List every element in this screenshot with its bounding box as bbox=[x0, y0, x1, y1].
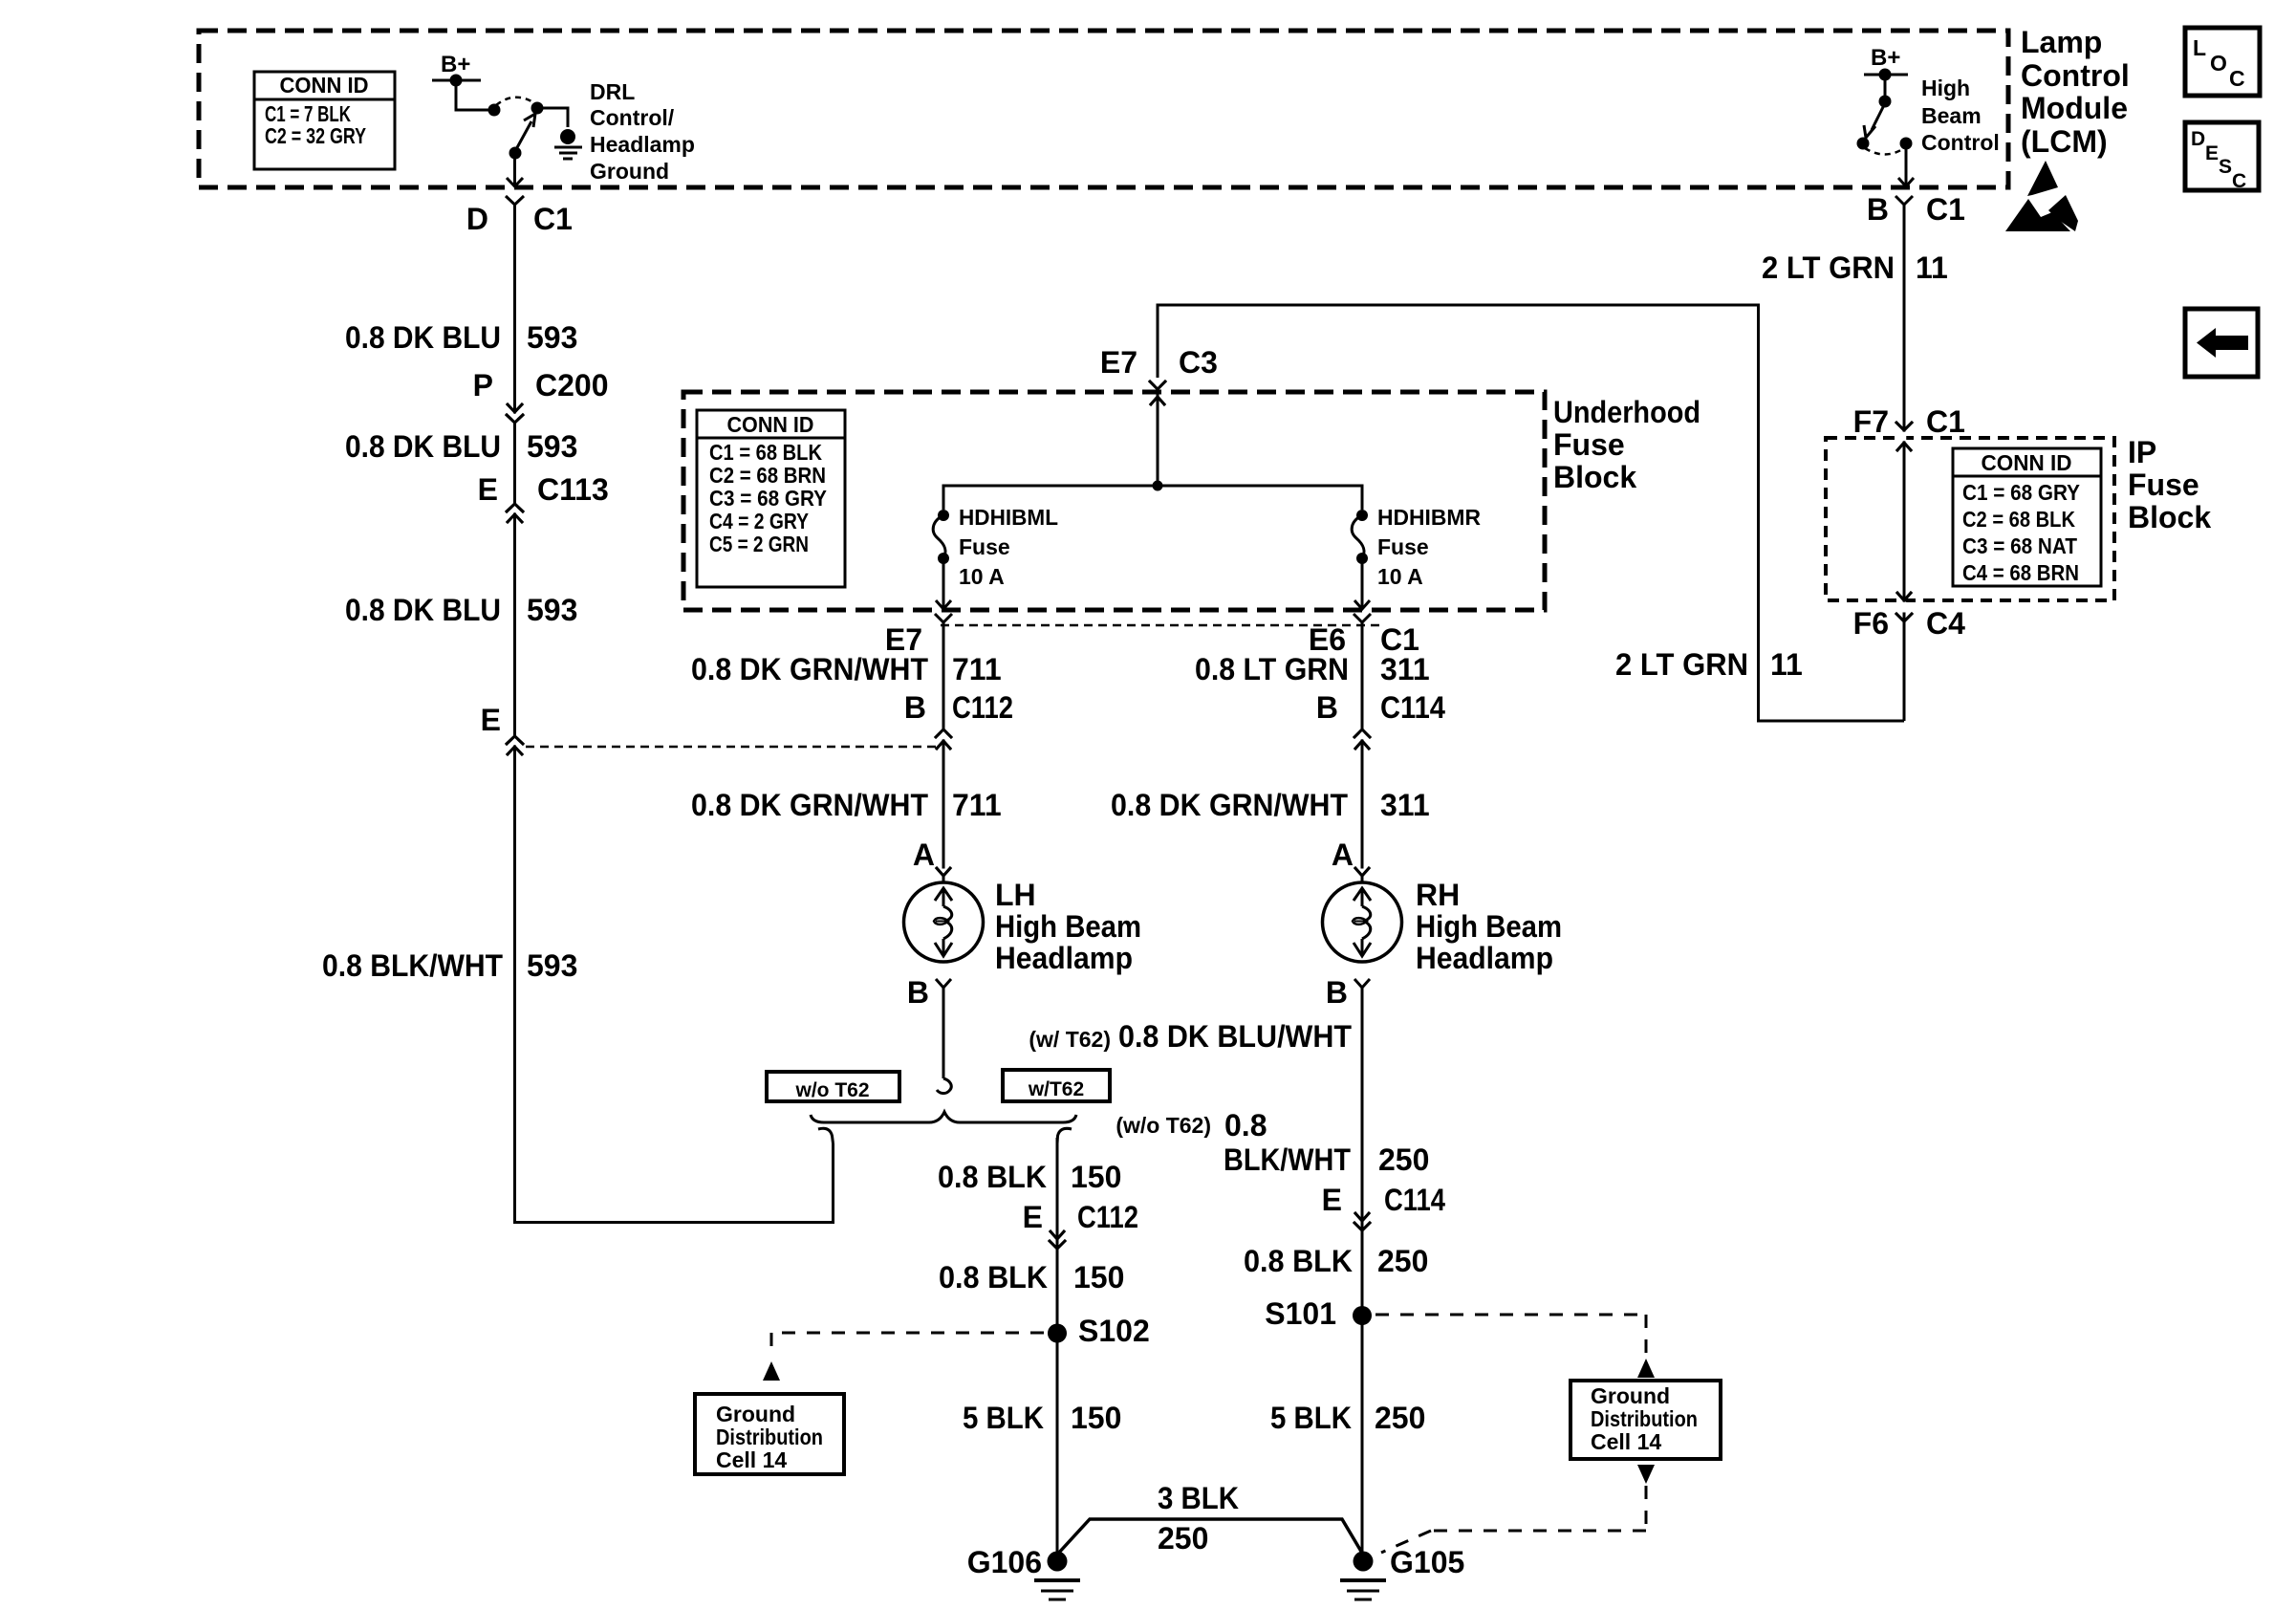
svg-text:C: C bbox=[2229, 66, 2245, 91]
wire: circuit 150 from w/T62 splice down to G106 bbox=[1056, 1138, 1059, 1555]
svg-text:C114: C114 bbox=[1384, 1183, 1445, 1217]
svg-text:G106: G106 bbox=[967, 1545, 1042, 1579]
module box: Underhood Fuse Block dashed outline bbox=[683, 392, 1545, 610]
svg-text:DRL: DRL bbox=[590, 79, 635, 104]
svg-text:B: B bbox=[1867, 192, 1889, 227]
svg-text:L: L bbox=[2193, 35, 2206, 60]
connector chevron overdraw (keeps symbols crisp over wire gaps) bbox=[506, 381, 1913, 1249]
svg-text:High Beam: High Beam bbox=[995, 909, 1141, 944]
wire: circuit 11 from LCM pin B down through IP fuse block bbox=[1903, 205, 1906, 721]
svg-text:B: B bbox=[1316, 690, 1338, 725]
svg-text:C112: C112 bbox=[952, 690, 1013, 725]
svg-text:E: E bbox=[1023, 1200, 1043, 1234]
svg-text:CONN ID: CONN ID bbox=[280, 73, 369, 98]
svg-text:Headlamp: Headlamp bbox=[590, 132, 695, 157]
wire: HDHIBML fuse output with arrowhead at box edge bbox=[936, 558, 951, 609]
svg-text:0.8 DK GRN/WHT: 0.8 DK GRN/WHT bbox=[691, 788, 928, 822]
label: RH High Beam Headlamp bbox=[1416, 878, 1562, 975]
svg-text:10 A: 10 A bbox=[1377, 564, 1423, 589]
svg-text:CONN ID: CONN ID bbox=[727, 412, 814, 437]
label: 2 LT GRN 11 (upper) bbox=[1762, 250, 1948, 285]
label: LH High Beam Headlamp bbox=[995, 878, 1141, 975]
svg-text:Control/: Control/ bbox=[590, 105, 675, 130]
label: (w/o T62) 0.8 BLK/WHT 250 bbox=[1116, 1108, 1429, 1177]
label: (w/ T62) 0.8 DK BLU/WHT bbox=[1029, 1019, 1352, 1054]
svg-text:E: E bbox=[1322, 1183, 1342, 1217]
svg-text:0.8 DK GRN/WHT: 0.8 DK GRN/WHT bbox=[1111, 788, 1348, 822]
svg-text:593: 593 bbox=[527, 948, 577, 983]
svg-text:Ground: Ground bbox=[716, 1402, 795, 1426]
svg-text:11: 11 bbox=[1916, 250, 1948, 285]
legend box: LOC bbox=[2185, 28, 2260, 96]
wire: w/o T62 branch curl bbox=[818, 1128, 834, 1143]
svg-text:A: A bbox=[1332, 838, 1354, 872]
switch throw arc (dashed, right) bbox=[1865, 148, 1904, 155]
svg-text:Lamp: Lamp bbox=[2021, 25, 2102, 59]
lamp: LH high beam headlamp bulb bbox=[904, 882, 984, 962]
wire: LH headlamp ground lead down to T62 option splice bbox=[937, 988, 951, 1094]
ESD sensitivity symbol bbox=[2005, 161, 2078, 231]
svg-text:O: O bbox=[2210, 51, 2227, 76]
label: 0.8 DK GRN/WHT 711 (upper) bbox=[691, 652, 1002, 686]
svg-text:Cell 14: Cell 14 bbox=[716, 1447, 787, 1472]
switch throw arc (dashed) bbox=[496, 98, 536, 105]
wire: circuit 593 main run (LCM pin D down, over and up to w/o T62 splice) bbox=[515, 205, 834, 1223]
label: 5 BLK 250 bbox=[1270, 1401, 1425, 1435]
label: High Beam Control bbox=[1921, 76, 2000, 155]
connector F6 / C4 below IP fuse block (chevron) bbox=[1853, 606, 1965, 641]
svg-text:Control: Control bbox=[2021, 58, 2130, 93]
connector C113 pin E (pass-through, chevron + arrow up) bbox=[478, 472, 609, 523]
svg-text:711: 711 bbox=[952, 652, 1002, 686]
svg-text:0.8 DK BLU: 0.8 DK BLU bbox=[345, 429, 501, 464]
svg-text:2 LT GRN: 2 LT GRN bbox=[1615, 647, 1748, 682]
connector pin A of LH headlamp (chevron) bbox=[913, 838, 951, 876]
svg-text:Fuse: Fuse bbox=[959, 534, 1010, 559]
svg-text:Headlamp: Headlamp bbox=[995, 941, 1133, 975]
power node B+ (right, high beam control) bbox=[1864, 45, 1908, 81]
svg-text:11: 11 bbox=[1770, 647, 1803, 682]
svg-text:S101: S101 bbox=[1265, 1296, 1336, 1331]
label: DRL Control/ Headlamp Ground bbox=[590, 79, 695, 184]
svg-text:150: 150 bbox=[1071, 1160, 1121, 1194]
svg-text:Fuse: Fuse bbox=[1377, 534, 1429, 559]
svg-text:F7: F7 bbox=[1853, 404, 1889, 439]
svg-text:0.8 LT GRN: 0.8 LT GRN bbox=[1195, 652, 1349, 686]
svg-text:S102: S102 bbox=[1078, 1314, 1150, 1348]
power node B+ (left, DRL control) bbox=[432, 52, 481, 87]
dashed connector tie line E7 to E6 row bbox=[941, 624, 1384, 627]
svg-text:High Beam: High Beam bbox=[1416, 909, 1562, 944]
svg-text:Ground: Ground bbox=[590, 159, 669, 184]
label: 0.8 DK GRN/WHT 711 (lower) bbox=[691, 788, 1002, 822]
splice node S101 bbox=[1265, 1296, 1372, 1331]
label: 0.8 BLK/WHT 593 bbox=[322, 948, 577, 983]
label: Underhood Fuse Block bbox=[1553, 395, 1700, 494]
svg-text:311: 311 bbox=[1380, 652, 1430, 686]
connector table: IP CONN ID bbox=[1953, 448, 2101, 586]
svg-text:D: D bbox=[2191, 128, 2205, 150]
svg-text:Underhood: Underhood bbox=[1553, 395, 1700, 429]
switch arm with arrowhead (DRL) bbox=[509, 114, 536, 160]
svg-text:593: 593 bbox=[527, 320, 577, 355]
svg-text:B: B bbox=[907, 975, 929, 1010]
svg-text:C1 = 68 BLK: C1 = 68 BLK bbox=[709, 440, 822, 465]
svg-text:5 BLK: 5 BLK bbox=[963, 1401, 1044, 1435]
svg-text:Fuse: Fuse bbox=[1553, 427, 1625, 462]
svg-text:0.8 DK BLU: 0.8 DK BLU bbox=[345, 320, 501, 355]
legend box: DESC bbox=[2185, 122, 2259, 192]
svg-text:w/o T62: w/o T62 bbox=[794, 1079, 869, 1101]
svg-text:S: S bbox=[2219, 156, 2232, 178]
label: 0.8 BLK 150 (above C112 pin E) bbox=[938, 1160, 1121, 1194]
svg-text:593: 593 bbox=[527, 429, 577, 464]
wire: circuit 250 from RH headlamp down to G105 bbox=[1361, 988, 1364, 1555]
wire: circuit 311 from fuse to C114 bbox=[1361, 622, 1364, 882]
reference box: Ground Distribution Cell 14 (left) bbox=[695, 1394, 844, 1474]
svg-text:C: C bbox=[2232, 170, 2246, 192]
svg-text:C3 = 68 GRY: C3 = 68 GRY bbox=[709, 486, 827, 511]
svg-text:0.8 BLK: 0.8 BLK bbox=[939, 1260, 1048, 1295]
brace: option split under headlamp ground lead bbox=[811, 1112, 1076, 1122]
svg-text:150: 150 bbox=[1073, 1260, 1124, 1295]
svg-text:250: 250 bbox=[1378, 1142, 1429, 1177]
ground G106 bbox=[967, 1545, 1080, 1599]
wire gaps at connector symbols bbox=[515, 382, 1905, 1248]
svg-text:Fuse: Fuse bbox=[2128, 468, 2199, 502]
svg-text:C3: C3 bbox=[1179, 345, 1218, 380]
svg-text:0.8 DK BLU/WHT: 0.8 DK BLU/WHT bbox=[1118, 1019, 1352, 1054]
svg-text:High: High bbox=[1921, 76, 1970, 100]
svg-text:3 BLK: 3 BLK bbox=[1158, 1481, 1239, 1515]
svg-text:Ground: Ground bbox=[1591, 1383, 1670, 1408]
svg-text:0.8 BLK: 0.8 BLK bbox=[938, 1160, 1047, 1194]
reference box: Ground Distribution Cell 14 (right) bbox=[1570, 1381, 1721, 1459]
svg-text:w/T62: w/T62 bbox=[1028, 1078, 1084, 1100]
splice node S102 bbox=[1048, 1314, 1150, 1348]
svg-text:B+: B+ bbox=[441, 52, 470, 77]
svg-text:LH: LH bbox=[995, 878, 1036, 912]
svg-text:F6: F6 bbox=[1853, 606, 1889, 641]
svg-text:D: D bbox=[466, 202, 488, 236]
svg-text:(LCM): (LCM) bbox=[2021, 124, 2108, 159]
lamp: RH high beam headlamp bulb bbox=[1323, 882, 1402, 962]
wire: 3 BLK 250 ground bus between G106 and G105 bbox=[1057, 1519, 1363, 1555]
svg-text:Control: Control bbox=[1921, 130, 2000, 155]
svg-text:Block: Block bbox=[2128, 500, 2211, 534]
wire: B+ stem to switch pivot bbox=[1879, 75, 1892, 108]
wire: HDHIBMR fuse output with arrowhead at box edge bbox=[1354, 558, 1370, 609]
svg-text:0.8 BLK: 0.8 BLK bbox=[1244, 1244, 1353, 1278]
svg-text:C1 = 68 GRY: C1 = 68 GRY bbox=[1962, 480, 2080, 505]
label: 0.8 LT GRN 311 (upper) bbox=[1195, 652, 1430, 686]
svg-text:10 A: 10 A bbox=[959, 564, 1005, 589]
svg-text:C2 = 32 GRY: C2 = 32 GRY bbox=[265, 123, 366, 148]
wire arrowhead at IP fuse block bottom edge bbox=[1896, 592, 1912, 600]
connector pin B of RH headlamp (chevron) bbox=[1326, 975, 1370, 1010]
connector E6 / C1 below fuse block (chevron) bbox=[1309, 614, 1419, 657]
connector C112 pin B (chevron + arrow up) bbox=[904, 690, 1013, 750]
wire: LCM pin D output stem with arrowhead at box edge bbox=[507, 153, 523, 186]
svg-text:0.8: 0.8 bbox=[1224, 1108, 1267, 1142]
svg-text:C1: C1 bbox=[1926, 192, 1965, 227]
svg-text:RH: RH bbox=[1416, 878, 1460, 912]
svg-text:G105: G105 bbox=[1390, 1545, 1464, 1579]
connector table: Underhood CONN ID bbox=[697, 410, 845, 587]
dashed reference: S101 to ground distribution cell bbox=[1375, 1315, 1655, 1378]
switch S: DRL control switch pole dot bbox=[488, 104, 501, 117]
switch contact dot and output wire with arrowhead bbox=[1898, 138, 1914, 187]
dashed connector tie line E to B (C112) bbox=[526, 746, 940, 749]
svg-text:C112: C112 bbox=[1077, 1200, 1138, 1234]
svg-text:593: 593 bbox=[527, 593, 577, 627]
ground: DRL headlamp ground inside LCM bbox=[554, 129, 582, 159]
node: splice to both fuses bbox=[1153, 481, 1163, 491]
connector pin B / C1 chevron below LCM (high beam control output) bbox=[1867, 192, 1965, 227]
svg-text:C5 = 2 GRN: C5 = 2 GRN bbox=[709, 532, 809, 556]
label: 0.8 BLK 150 (below C112 pin E) bbox=[939, 1260, 1124, 1295]
svg-text:IP: IP bbox=[2128, 435, 2156, 469]
svg-text:0.8 DK GRN/WHT: 0.8 DK GRN/WHT bbox=[691, 652, 928, 686]
svg-text:311: 311 bbox=[1380, 788, 1430, 822]
fuse HDHIBMR 10 A bbox=[1352, 505, 1481, 589]
dashed reference: ground distribution cell to G105 bbox=[1381, 1465, 1655, 1553]
svg-text:Distribution: Distribution bbox=[1591, 1406, 1698, 1431]
ground G105 bbox=[1340, 1545, 1464, 1599]
svg-text:A: A bbox=[913, 838, 935, 872]
switch arm with arrowhead (high beam) bbox=[1857, 103, 1886, 150]
label: 5 BLK 150 bbox=[963, 1401, 1121, 1435]
legend box: back arrow bbox=[2185, 309, 2258, 377]
svg-text:C4: C4 bbox=[1926, 606, 1965, 641]
wire: B+ feed down and over to switch pole bbox=[456, 80, 494, 110]
wire: circuit 711 from fuse to C112 bbox=[942, 622, 945, 882]
svg-text:C1: C1 bbox=[1926, 404, 1965, 439]
svg-text:B+: B+ bbox=[1871, 45, 1900, 71]
connector C114 pin B (chevron + arrow up) bbox=[1316, 690, 1445, 750]
svg-text:HDHIBMR: HDHIBMR bbox=[1377, 505, 1481, 530]
svg-text:B: B bbox=[1326, 975, 1348, 1010]
switch contact dot (right throw) bbox=[531, 102, 544, 115]
svg-text:C113: C113 bbox=[537, 472, 609, 507]
connector C112 pin E (arrow down + chevron) bbox=[1023, 1200, 1138, 1249]
svg-text:Distribution: Distribution bbox=[716, 1425, 823, 1449]
svg-text:2 LT GRN: 2 LT GRN bbox=[1762, 250, 1895, 285]
svg-text:CONN ID: CONN ID bbox=[1982, 450, 2072, 475]
svg-text:BLK/WHT: BLK/WHT bbox=[1224, 1142, 1351, 1177]
svg-text:C200: C200 bbox=[535, 368, 609, 402]
label: 0.8 DK BLU 593 (upper) bbox=[345, 320, 577, 355]
svg-text:E: E bbox=[478, 472, 498, 507]
label: 0.8 DK BLU 593 (second) bbox=[345, 429, 577, 464]
svg-text:C4 = 68 BRN: C4 = 68 BRN bbox=[1962, 560, 2079, 585]
svg-text:150: 150 bbox=[1071, 1401, 1121, 1435]
module box: IP Fuse Block dashed outline bbox=[1826, 438, 2114, 600]
svg-text:B: B bbox=[904, 690, 926, 725]
wire: switch contact to headlamp ground symbol bbox=[537, 108, 568, 127]
svg-text:P: P bbox=[473, 368, 493, 402]
connector E7 below fuse block (chevron) bbox=[885, 614, 952, 657]
label: 3 BLK 250 bbox=[1158, 1481, 1239, 1556]
wire: w/T62 branch curl down to circuit 150 bbox=[1057, 1128, 1072, 1143]
svg-text:C4 = 2 GRY: C4 = 2 GRY bbox=[709, 509, 809, 533]
connector pin A of RH headlamp (chevron) bbox=[1332, 838, 1370, 876]
module box: Lamp Control Module (LCM) dashed outline bbox=[199, 31, 2008, 187]
svg-text:HDHIBML: HDHIBML bbox=[959, 505, 1058, 530]
svg-text:C2 = 68 BRN: C2 = 68 BRN bbox=[709, 463, 826, 488]
svg-text:E: E bbox=[481, 703, 501, 737]
svg-text:C3 = 68 NAT: C3 = 68 NAT bbox=[1962, 533, 2077, 558]
option box: w/T62 bbox=[1003, 1070, 1110, 1101]
svg-text:Beam: Beam bbox=[1921, 103, 1982, 128]
connector table: LCM CONN ID (C1 = 7 BLK, C2 = 32 GRY) bbox=[254, 72, 395, 169]
label: IP Fuse Block bbox=[2128, 435, 2211, 534]
svg-text:Headlamp: Headlamp bbox=[1416, 941, 1553, 975]
connector C114 pin E (arrow down + chevron) bbox=[1322, 1183, 1446, 1230]
fuse HDHIBML 10 A bbox=[933, 505, 1058, 589]
option box: w/o T62 bbox=[767, 1072, 899, 1101]
label: 0.8 DK BLU 593 (third) bbox=[345, 593, 577, 627]
connector E7 / C3 into fuse block (chevron above edge, arrow up inside) bbox=[1100, 345, 1218, 405]
connector pin E (to headlamp harness, chevron + arrow up) bbox=[481, 703, 524, 755]
svg-text:711: 711 bbox=[952, 788, 1002, 822]
svg-text:C1: C1 bbox=[533, 202, 573, 236]
svg-text:250: 250 bbox=[1377, 1244, 1428, 1278]
connector C200 pin P (pass-through, arrow down + chevron) bbox=[473, 368, 609, 423]
svg-text:Module: Module bbox=[2021, 91, 2128, 125]
connector pin D / C1 chevron below LCM bbox=[466, 196, 573, 236]
svg-text:(w/o T62): (w/o T62) bbox=[1116, 1113, 1211, 1138]
svg-text:E7: E7 bbox=[1100, 345, 1137, 380]
svg-text:C114: C114 bbox=[1380, 690, 1445, 725]
svg-text:(w/ T62): (w/ T62) bbox=[1029, 1027, 1111, 1052]
svg-text:0.8 BLK/WHT: 0.8 BLK/WHT bbox=[322, 948, 503, 983]
svg-text:Cell 14: Cell 14 bbox=[1591, 1429, 1661, 1454]
svg-text:250: 250 bbox=[1158, 1521, 1208, 1556]
label: Lamp Control Module (LCM) bbox=[2021, 25, 2130, 159]
connector F7 / C1 into IP fuse block (chevron + arrow up) bbox=[1853, 404, 1965, 451]
label: 0.8 DK GRN/WHT 311 (lower) bbox=[1111, 788, 1430, 822]
svg-text:5 BLK: 5 BLK bbox=[1270, 1401, 1352, 1435]
svg-text:0.8 DK BLU: 0.8 DK BLU bbox=[345, 593, 501, 627]
wire: fused B+ feed inside fuse block bbox=[1157, 392, 1159, 486]
svg-text:E: E bbox=[2205, 142, 2219, 164]
svg-text:Block: Block bbox=[1553, 460, 1636, 494]
svg-text:C2 = 68 BLK: C2 = 68 BLK bbox=[1962, 507, 2075, 532]
label: 2 LT GRN 11 (lower) bbox=[1615, 647, 1803, 682]
wire: circuit 11 route from F6 over and up to E7/C3 of underhood fuse block bbox=[1158, 305, 1904, 721]
connector pin B of LH headlamp (chevron) bbox=[907, 975, 951, 1010]
dashed reference: S102 to ground distribution cell bbox=[763, 1333, 1044, 1381]
wire: bus to HDHIBML and HDHIBMR fuses bbox=[943, 486, 1362, 510]
svg-text:250: 250 bbox=[1375, 1401, 1425, 1435]
label: 0.8 BLK 250 bbox=[1244, 1244, 1428, 1278]
